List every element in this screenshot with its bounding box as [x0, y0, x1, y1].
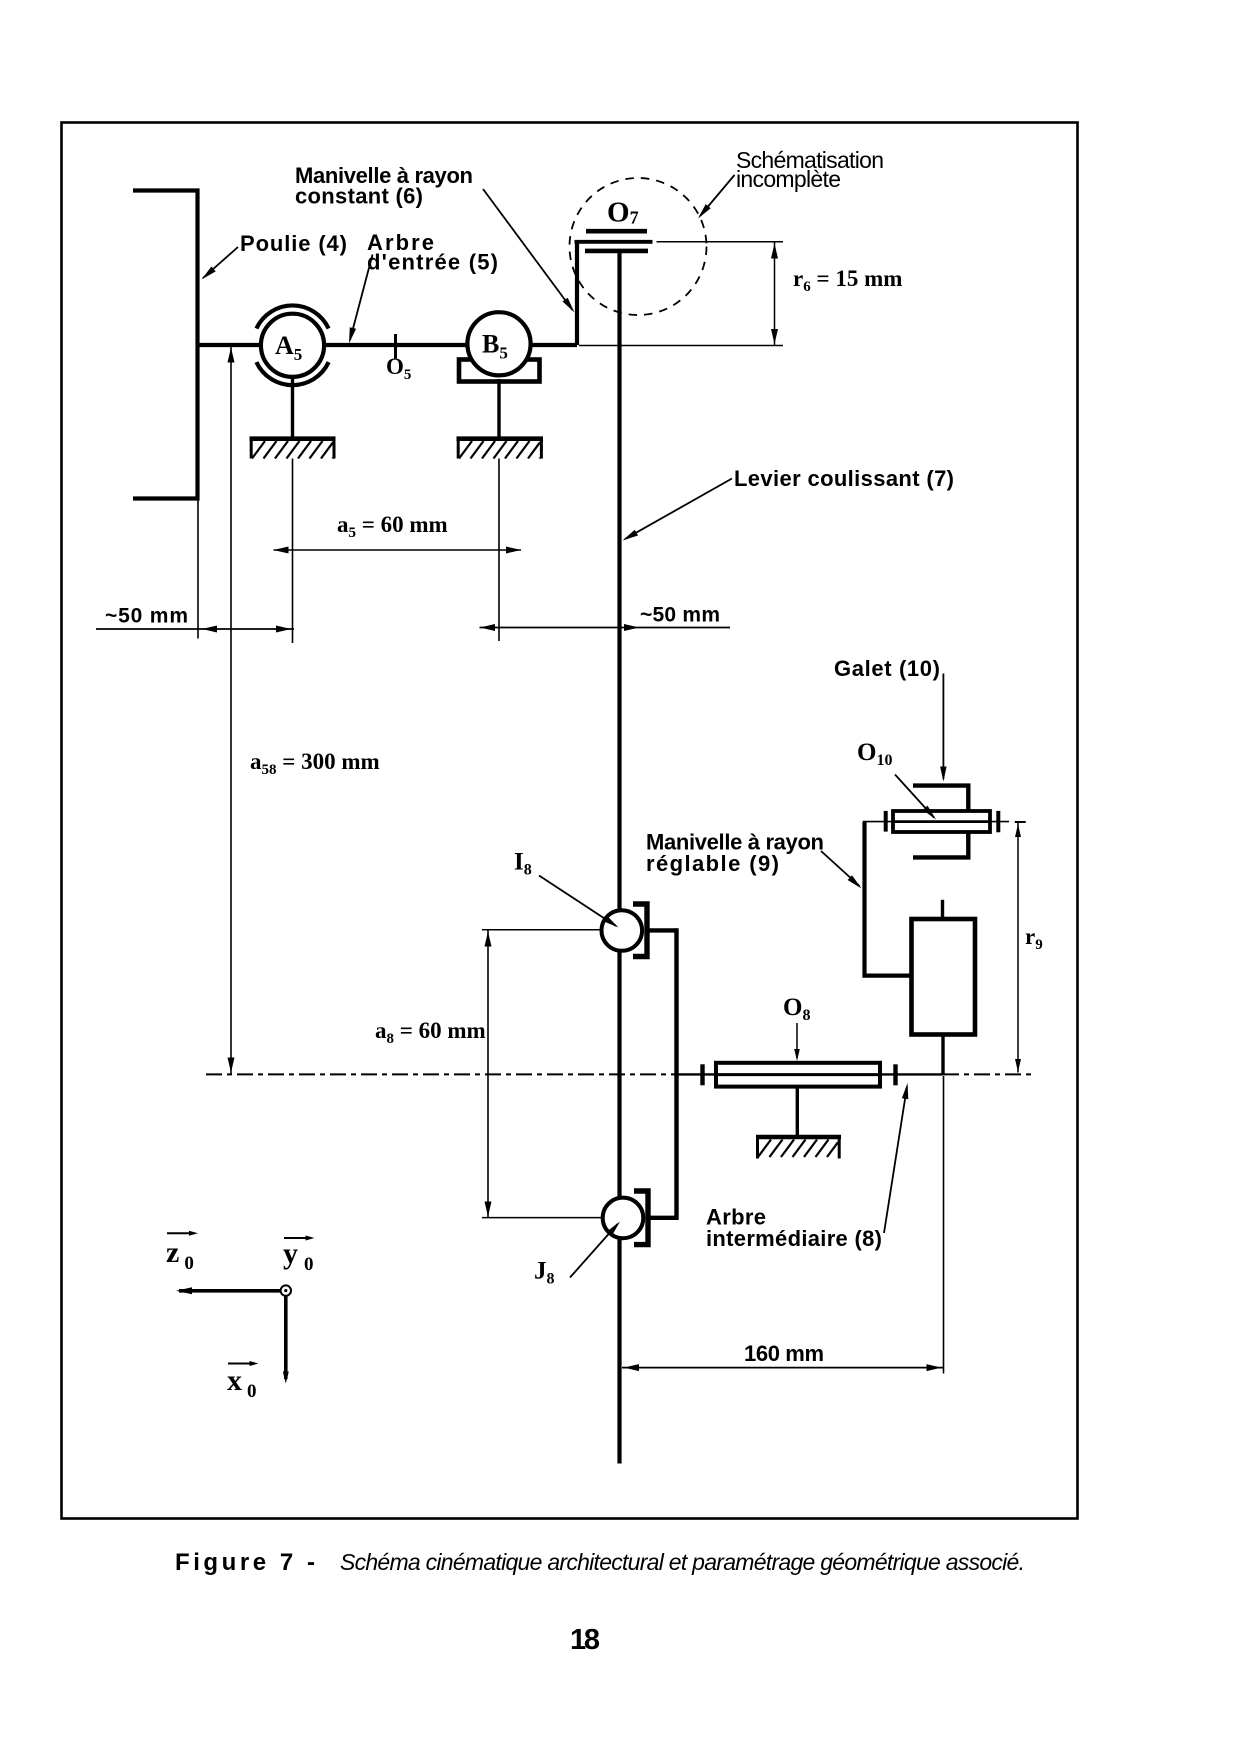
origin symbol y0 (out of plane)	[281, 1285, 291, 1295]
svg-text:Figure 7 -: Figure 7 -	[175, 1549, 315, 1576]
label crank constant radius (6) with leader	[295, 163, 575, 313]
bearing B5 (pivot) with label	[459, 312, 540, 381]
link rod I8-J8	[647, 928, 677, 1220]
dimension r9	[1015, 822, 1043, 1073]
joint J8 slider pad and circle	[603, 1191, 648, 1245]
label J8 with leader	[534, 1222, 620, 1288]
label x0 with vector bar	[227, 1361, 259, 1402]
support link O8	[796, 1087, 799, 1137]
svg-text:intermédiaire (8): intermédiaire (8)	[706, 1226, 882, 1251]
pulley (4) bracket	[133, 191, 198, 499]
svg-text:O8: O8	[783, 994, 810, 1024]
dimension a58 = 300 mm	[228, 346, 380, 1074]
axis z0 arrow	[176, 1287, 283, 1294]
joint O7 slider-pivot bars	[575, 231, 653, 251]
intermediate shaft (8) barrel	[716, 1063, 880, 1087]
svg-text:a5 = 60 mm: a5 = 60 mm	[337, 512, 448, 541]
svg-text:~50 mm: ~50 mm	[105, 605, 188, 628]
coupling tick left of O8	[700, 1064, 704, 1085]
roller fork brackets	[913, 786, 968, 858]
svg-text:r9: r9	[1025, 924, 1043, 953]
svg-text:~50 mm: ~50 mm	[640, 604, 720, 627]
svg-text:a8 = 60 mm: a8 = 60 mm	[375, 1018, 486, 1047]
label incomplete schematisation with leader	[698, 147, 884, 219]
support link A5	[291, 377, 294, 438]
svg-text:Schéma cinématique architectur: Schéma cinématique architectural et para…	[340, 1549, 1025, 1575]
svg-text:constant (6): constant (6)	[295, 184, 423, 209]
label input shaft (5) with leader	[349, 230, 498, 344]
page number 18	[570, 1624, 600, 1656]
dimension 160 mm	[622, 1076, 944, 1374]
coupling tick left of O10	[884, 811, 888, 832]
label y0 with vector bar	[283, 1236, 315, 1276]
roller axis line	[863, 821, 1009, 823]
svg-text:Levier coulissant (7): Levier coulissant (7)	[734, 466, 954, 491]
label adjustable crank (9) with leader	[646, 830, 862, 889]
extension line from A5	[292, 459, 294, 644]
svg-text:x0: x0	[227, 1364, 257, 1402]
dimension ~50 mm left	[96, 605, 294, 633]
svg-text:O10: O10	[857, 739, 892, 769]
border frame	[62, 123, 1078, 1519]
label z0 with vector bar	[166, 1231, 198, 1274]
dimension a5 = 60 mm	[274, 512, 522, 554]
joint I8 slider pad and circle	[602, 904, 648, 957]
label sliding lever (7) with leader	[623, 466, 955, 541]
axis line of intermediate shaft O8	[206, 1073, 1031, 1075]
svg-text:y0: y0	[283, 1237, 314, 1275]
pulley extension line	[197, 500, 199, 639]
ground under O8	[756, 1137, 841, 1159]
svg-text:I8: I8	[514, 849, 532, 879]
roller (10) barrel O10	[893, 811, 990, 832]
svg-text:J8: J8	[534, 1258, 555, 1288]
ground under B5	[457, 438, 544, 459]
sliding lever (7) wire	[617, 253, 621, 1464]
label O10 with leader	[857, 739, 936, 820]
coupling tick right of O10	[996, 811, 1000, 832]
svg-text:160 mm: 160 mm	[744, 1341, 824, 1366]
svg-text:z0: z0	[166, 1236, 194, 1274]
svg-text:Poulie (4): Poulie (4)	[240, 231, 347, 256]
label galet (10) with leader	[834, 656, 947, 782]
ground under A5	[250, 438, 336, 459]
extension line from B5	[498, 459, 500, 642]
label O7	[607, 197, 639, 229]
bearing A5 (pivot) with label	[256, 305, 328, 385]
svg-text:réglable (9): réglable (9)	[646, 851, 779, 876]
label intermediate shaft (8) with leader	[706, 1083, 908, 1251]
svg-text:r6 = 15 mm: r6 = 15 mm	[793, 266, 902, 295]
dimension ~50 mm right	[480, 604, 731, 632]
coupling tick right of O8	[893, 1064, 897, 1085]
label pulley (4) with leader	[202, 231, 348, 280]
support link B5	[497, 379, 500, 438]
dimension r6 = 15 mm	[579, 242, 902, 346]
svg-text:d'entrée (5): d'entrée (5)	[367, 250, 498, 275]
axis x0 arrow	[283, 1296, 289, 1384]
input shaft (5) wire	[198, 343, 578, 347]
svg-text:Galet (10): Galet (10)	[834, 656, 940, 681]
incomplete-schematisation dashed circle	[570, 178, 707, 315]
svg-text:O5: O5	[386, 354, 411, 383]
svg-text:incomplète: incomplète	[736, 166, 841, 192]
label I8 with leader	[514, 849, 619, 928]
crank (6) wire	[575, 242, 579, 346]
node O5 tick	[394, 334, 397, 359]
adjustable crank (9) block	[912, 900, 976, 1075]
dimension a8 = 60 mm	[375, 930, 603, 1218]
svg-text:O7: O7	[607, 197, 639, 229]
label O5	[386, 354, 411, 383]
svg-text:a58 = 300 mm: a58 = 300 mm	[250, 749, 380, 778]
svg-text:18: 18	[570, 1624, 600, 1656]
label O8 with leader	[783, 994, 810, 1061]
figure caption	[175, 1549, 1025, 1576]
crank (9) L-link wire	[865, 822, 912, 976]
